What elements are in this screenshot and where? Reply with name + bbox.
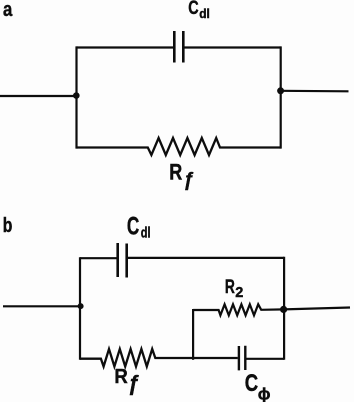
svg-text:R: R: [169, 159, 182, 184]
svg-text:C: C: [245, 370, 258, 397]
svg-text:ϕ: ϕ: [258, 385, 271, 402]
svg-text:a: a: [3, 0, 13, 21]
svg-text:2: 2: [235, 285, 243, 301]
svg-text:ƒ: ƒ: [128, 373, 140, 396]
svg-text:dl: dl: [141, 225, 151, 242]
svg-text:b: b: [3, 215, 13, 237]
svg-text:R: R: [114, 366, 128, 388]
svg-text:C: C: [188, 0, 199, 19]
svg-text:dl: dl: [199, 6, 210, 21]
svg-text:ƒ: ƒ: [183, 170, 194, 191]
svg-text:R: R: [225, 277, 235, 298]
svg-text:C: C: [127, 212, 139, 240]
